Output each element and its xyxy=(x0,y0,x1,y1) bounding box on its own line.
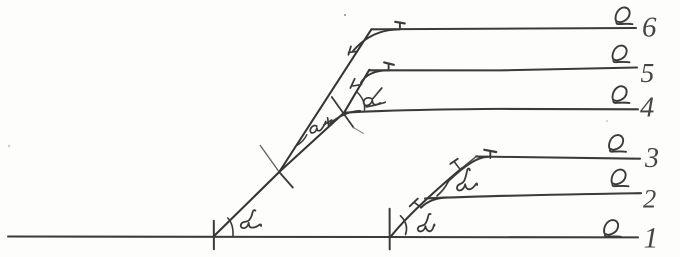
turnout tick at junction J1 on track 1 xyxy=(213,221,215,250)
angle arc at track2 corner xyxy=(437,182,448,196)
tick X2 dark part xyxy=(332,97,354,128)
connecting curve to track 2 xyxy=(421,197,447,207)
alpha label at J1 xyxy=(241,210,261,228)
tick X2 faint extension xyxy=(354,128,364,134)
connecting curve to track 6 xyxy=(353,29,400,51)
alpha label at track2 corner xyxy=(457,169,477,191)
svg-text:4: 4 xyxy=(640,93,654,124)
track 2 line e2 xyxy=(425,193,641,198)
curve-start tick on track5 branch xyxy=(350,79,361,88)
right diagonal from J2 xyxy=(391,168,462,236)
track 3 line e3 xyxy=(476,157,640,159)
turnout tick at junction J2 on track 2 start xyxy=(389,209,391,250)
track 4 line e4 xyxy=(344,109,638,113)
T marker on track 3 xyxy=(484,150,496,158)
diagonal D1 from J1 to X1 xyxy=(214,172,279,236)
paper speck xyxy=(8,145,10,147)
angle arc at J1 xyxy=(228,218,233,236)
T marker on track 6 xyxy=(395,22,405,29)
tick X1 lower dark part xyxy=(279,172,293,188)
connecting curve to track 5 xyxy=(361,70,389,82)
label e3 xyxy=(609,135,626,152)
paper speck xyxy=(606,120,608,122)
track 5 line e5 xyxy=(369,68,637,71)
label e2 xyxy=(612,170,629,187)
thin straight continuation to track 3 corner xyxy=(461,156,477,169)
T marker on track 5 xyxy=(384,62,394,70)
angle arc at J2 xyxy=(401,216,407,235)
svg-text:3: 3 xyxy=(644,143,659,174)
track 6 line e6 xyxy=(371,28,636,29)
curve-start tick on steep branch xyxy=(348,46,356,54)
paper speck xyxy=(344,14,346,16)
angle arc at X2 xyxy=(358,93,365,111)
alpha label at X1 (with crossing mark) xyxy=(310,118,332,133)
label e5 xyxy=(613,46,630,63)
svg-text:1: 1 xyxy=(644,223,659,255)
tick X1 upper faint part xyxy=(260,145,279,172)
svg-text:2: 2 xyxy=(643,184,656,214)
connecting curve to track 4 xyxy=(330,111,360,124)
curve-start tick on right diagonal (upper) xyxy=(450,159,459,168)
branch X2 to track 5 corner xyxy=(344,70,369,113)
track 1 (bottom main line e1) xyxy=(8,235,638,238)
alpha label at J2 xyxy=(418,214,435,232)
label e6 xyxy=(616,7,633,24)
shallow branch X1 to X2 xyxy=(279,113,344,172)
connecting curve to track 3 xyxy=(448,157,488,182)
curve-start tick on right diagonal (lower) xyxy=(410,199,422,208)
steep branch X1 to track 6 corner xyxy=(279,29,371,172)
label e4 xyxy=(613,86,630,103)
svg-text:5: 5 xyxy=(641,57,655,88)
label e1 xyxy=(604,220,621,237)
alpha label at X2 xyxy=(364,88,386,107)
svg-text:6: 6 xyxy=(642,12,657,44)
angle arc at X1 xyxy=(297,135,307,146)
